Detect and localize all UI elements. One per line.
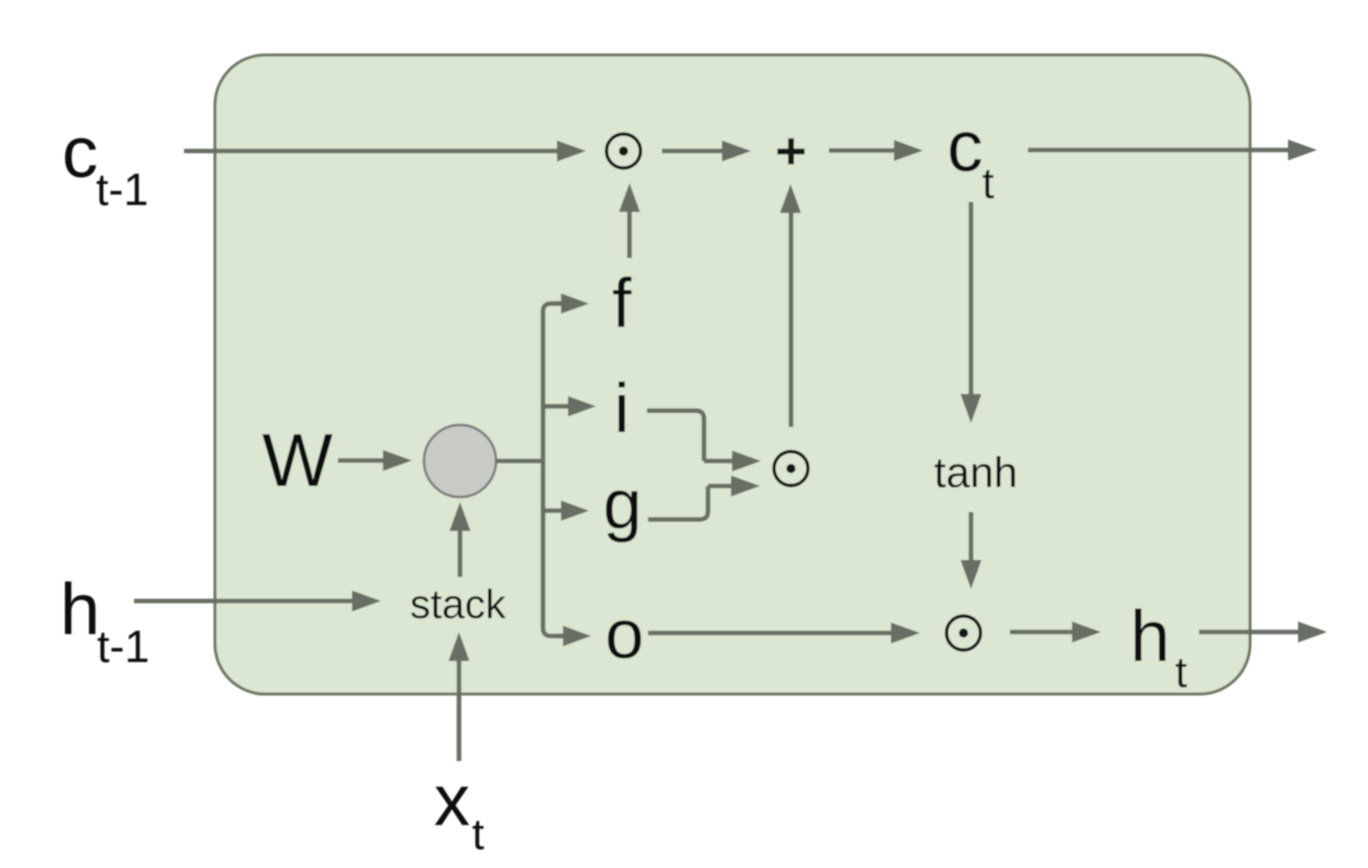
svg-text:t: t bbox=[1175, 648, 1187, 697]
svg-text:stack: stack bbox=[410, 581, 506, 627]
svg-text:g: g bbox=[603, 465, 642, 543]
svg-text:o: o bbox=[605, 595, 644, 673]
wire c_t out of cell (right) bbox=[1028, 140, 1317, 161]
wire x_t up into stack bbox=[449, 632, 470, 761]
wire odot1 to plus bbox=[662, 141, 751, 162]
svg-text:t: t bbox=[472, 810, 484, 859]
odot U1 (elementwise product, top) bbox=[607, 134, 641, 168]
bracket stub arrowhead to o bbox=[556, 626, 591, 646]
svg-text:t-1: t-1 bbox=[96, 164, 149, 215]
svg-text:h: h bbox=[1130, 597, 1170, 677]
wire c_t-1 into odot1 bbox=[184, 141, 586, 162]
wire stack up into circle bbox=[450, 502, 471, 577]
node c_t label bbox=[947, 107, 994, 208]
wire stack circle to bracket bbox=[496, 459, 545, 464]
plus node (add) bbox=[777, 138, 804, 164]
wire W to stack circle bbox=[338, 450, 412, 471]
wire odot3 to h_t bbox=[1010, 622, 1101, 643]
wire c_t down to tanh bbox=[961, 202, 982, 423]
wire g to odot2 bbox=[648, 476, 760, 520]
wire plus to c_t bbox=[829, 140, 923, 161]
gate splitter bracket bbox=[543, 304, 562, 636]
LSTM cell body (green rounded box) bbox=[215, 55, 1250, 694]
svg-text:i: i bbox=[614, 369, 630, 447]
stack circle (gray) bbox=[424, 425, 496, 497]
bracket stub arrow to i bbox=[543, 396, 596, 416]
wire f up into odot1 bbox=[619, 183, 640, 258]
wire h_t-1 into stack bbox=[134, 591, 381, 612]
svg-text:c: c bbox=[947, 107, 983, 187]
svg-text:W: W bbox=[262, 418, 333, 502]
svg-text:tanh: tanh bbox=[934, 449, 1018, 497]
wire i to odot2 bbox=[647, 411, 761, 472]
wire o to odot3 bbox=[648, 623, 920, 644]
odot U2 (elementwise product, middle) bbox=[774, 452, 808, 486]
odot U3 (elementwise product, bottom) bbox=[947, 616, 981, 650]
wire h_t out of cell (right) bbox=[1199, 622, 1327, 643]
wire tanh to odot3 bbox=[961, 512, 982, 589]
wire odot2 up into plus bbox=[780, 184, 801, 427]
bracket stub arrow to g bbox=[543, 501, 589, 521]
node h_t-1 label bbox=[60, 570, 150, 672]
node h_t label bbox=[1130, 597, 1187, 697]
node c_t-1 label bbox=[62, 113, 149, 215]
node x_t label bbox=[434, 761, 484, 859]
svg-text:f: f bbox=[612, 264, 632, 342]
svg-text:c: c bbox=[62, 113, 98, 193]
bracket stub arrowhead to f bbox=[556, 293, 589, 313]
svg-text:t: t bbox=[982, 159, 994, 208]
svg-text:t-1: t-1 bbox=[97, 621, 150, 672]
svg-text:x: x bbox=[434, 761, 470, 841]
svg-text:h: h bbox=[60, 570, 100, 650]
